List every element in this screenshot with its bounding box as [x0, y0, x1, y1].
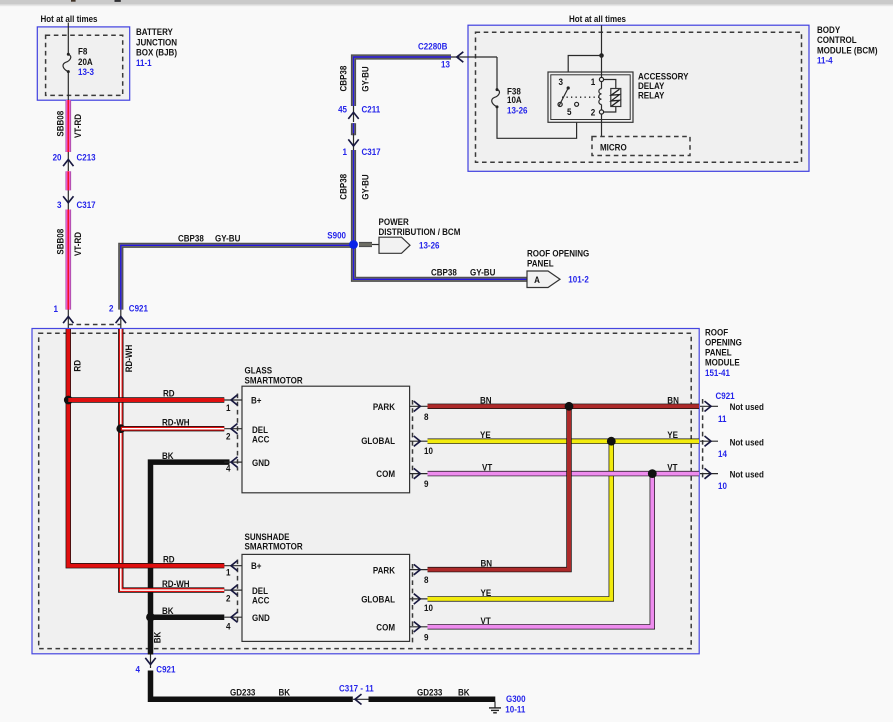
svg-text:MICRO: MICRO	[600, 143, 627, 153]
svg-text:GY-BU: GY-BU	[215, 234, 240, 244]
svg-text:VT: VT	[667, 463, 678, 473]
svg-text:20A: 20A	[78, 57, 93, 67]
fuse F38 value label	[507, 87, 528, 116]
svg-text:ACC: ACC	[252, 435, 270, 445]
wire CBP38 GY-BU from S900 left to module (C921 pin 2)	[121, 245, 354, 309]
wire: down to fuse F38	[496, 57, 498, 89]
wire: S900 down to roof opening panel branch	[354, 245, 528, 279]
svg-text:CBP38: CBP38	[338, 174, 348, 200]
svg-text:MODULE (BCM): MODULE (BCM)	[817, 46, 878, 56]
splice: BK to sunshade GND	[146, 613, 155, 622]
wire BN glass PARK to module edge	[428, 404, 700, 409]
svg-text:9: 9	[424, 479, 429, 489]
svg-text:CBP38: CBP38	[338, 66, 348, 92]
svg-text:45: 45	[338, 105, 347, 115]
relay coil (inductor)	[599, 89, 602, 105]
glass pin 8 (PARK)	[410, 401, 429, 422]
svg-text:10: 10	[718, 481, 727, 491]
svg-text:VT-RD: VT-RD	[73, 114, 83, 138]
svg-text:C317: C317	[362, 147, 381, 157]
svg-text:RD-WH: RD-WH	[124, 345, 134, 373]
svg-text:DELAY: DELAY	[638, 81, 664, 91]
sunshade motor pin name labels	[251, 561, 395, 633]
glass motor pin name labels	[251, 396, 395, 480]
svg-text:BN: BN	[667, 395, 679, 405]
glass pin 2 (DEL ACC)	[224, 424, 242, 442]
svg-text:G300: G300	[506, 694, 526, 704]
svg-text:BK: BK	[162, 606, 174, 616]
connector C2280B (pin 13)	[418, 42, 463, 70]
C921 pin 14 (not used)	[700, 436, 764, 459]
svg-text:4: 4	[226, 464, 231, 474]
svg-text:3: 3	[57, 200, 62, 210]
svg-text:BK: BK	[279, 688, 291, 698]
svg-text:Not used: Not used	[730, 438, 764, 448]
svg-text:1: 1	[343, 147, 348, 157]
svg-text:Not used: Not used	[730, 402, 764, 412]
svg-text:SBB08: SBB08	[56, 229, 66, 255]
wire SBB08 VT-RD upper segment	[66, 100, 72, 152]
svg-text:F8: F8	[78, 47, 87, 57]
svg-text:CONTROL: CONTROL	[817, 35, 857, 45]
svg-text:GD233: GD233	[230, 688, 255, 698]
svg-text:PARK: PARK	[373, 402, 396, 412]
svg-text:ACC: ACC	[252, 596, 270, 606]
svg-text:14: 14	[718, 449, 727, 459]
wire RD-WH from C921 pin 2	[121, 329, 225, 590]
connector C921 pin 2 (module top)	[109, 304, 148, 329]
svg-text:C921: C921	[129, 304, 148, 314]
off-page flag: power distribution / BCM	[379, 217, 461, 253]
roof opening panel module outline	[32, 329, 699, 654]
wire: C2280B exit stub inside BCM	[451, 56, 497, 58]
glass connector dashed line (left)	[237, 394, 239, 471]
svg-text:CBP38: CBP38	[431, 268, 457, 278]
svg-text:GLASS: GLASS	[245, 366, 273, 376]
wire SBB08 VT-RD lower segment	[66, 210, 72, 310]
svg-text:SMARTMOTOR: SMARTMOTOR	[245, 376, 304, 386]
svg-text:1: 1	[226, 403, 231, 413]
svg-text:PARK: PARK	[373, 565, 396, 575]
wire: fuse F38 to relay pin 5	[497, 106, 577, 138]
splice S900	[327, 231, 358, 249]
micro dashed box	[592, 137, 690, 156]
wire BK: glass GND corner down to splice	[151, 462, 230, 617]
svg-text:Hot at all times: Hot at all times	[569, 14, 626, 24]
connector C921 dashed line	[68, 324, 121, 326]
glass pin 10 (GLOBAL)	[410, 436, 433, 456]
wire BK: splice to sunshade GND	[151, 614, 225, 620]
svg-text:RD: RD	[72, 360, 82, 372]
svg-text:GY-BU: GY-BU	[470, 268, 495, 278]
svg-text:8: 8	[424, 575, 429, 585]
wire RD-WH branch to glass pin 2	[121, 426, 225, 431]
svg-text:DEL: DEL	[252, 425, 268, 435]
svg-text:BK: BK	[162, 451, 174, 461]
connector C317 (pin 3)	[57, 190, 96, 210]
svg-text:CBP38: CBP38	[178, 234, 204, 244]
sunshade pin 4 (GND)	[224, 612, 242, 632]
svg-text:C211: C211	[362, 105, 381, 115]
svg-text:BK: BK	[152, 631, 162, 643]
relay pin 1 junction	[599, 77, 603, 81]
svg-text:13: 13	[441, 60, 450, 70]
svg-text:C921: C921	[156, 665, 175, 675]
svg-text:OPENING: OPENING	[705, 338, 742, 348]
sunshade connector dashed line (right)	[412, 564, 414, 644]
svg-text:GLOBAL: GLOBAL	[361, 436, 395, 446]
relay actuation dotted line	[562, 96, 599, 98]
svg-text:PANEL: PANEL	[527, 258, 554, 268]
svg-text:C317 - 11: C317 - 11	[339, 684, 374, 694]
svg-text:SMARTMOTOR: SMARTMOTOR	[245, 542, 304, 552]
off-page flag A: roof opening panel	[527, 249, 589, 288]
svg-text:ROOF OPENING: ROOF OPENING	[527, 249, 589, 259]
wire GD233 BK to C317 arrow	[151, 671, 353, 700]
relay suppression resistor branch	[602, 80, 621, 113]
splice: YE	[607, 437, 616, 446]
svg-text:8: 8	[424, 412, 429, 422]
BCM label text	[817, 25, 878, 66]
svg-text:1: 1	[226, 568, 231, 578]
svg-text:Not used: Not used	[730, 469, 764, 479]
wire: S900 to power distribution flag	[359, 242, 379, 247]
wire BN sunshade PARK up to glass BN	[428, 406, 570, 569]
svg-text:BODY: BODY	[817, 25, 840, 35]
splice: BN	[565, 402, 574, 411]
svg-text:13-26: 13-26	[507, 106, 528, 116]
BCM inner dashed border	[476, 32, 802, 162]
svg-text:GY-BU: GY-BU	[360, 174, 370, 199]
relay pin 2 junction	[599, 110, 603, 114]
module inner dashed border	[39, 333, 692, 648]
fuse F38 symbol	[492, 88, 500, 108]
top browser bar remnant	[0, 0, 893, 5]
svg-text:20: 20	[53, 153, 62, 163]
svg-text:BATTERY: BATTERY	[136, 27, 173, 37]
svg-text:13-3: 13-3	[78, 67, 94, 77]
svg-text:GLOBAL: GLOBAL	[361, 594, 395, 604]
sunshade connector dashed line (left)	[237, 560, 239, 626]
wire: feed into fuse F8	[67, 23, 69, 55]
connector C211 (pin 45)	[338, 105, 380, 123]
wire: fuse F8 to box edge	[67, 72, 69, 100]
wire GD233 BK to ground	[369, 697, 496, 703]
svg-text:YE: YE	[481, 588, 492, 598]
splice: VT	[648, 469, 657, 478]
wire GY-BU between C211 and C317	[351, 123, 356, 135]
connector C317 pin 11 (in-line)	[339, 684, 374, 705]
svg-text:COM: COM	[376, 623, 395, 633]
svg-text:POWER: POWER	[379, 217, 410, 227]
svg-text:1: 1	[591, 77, 596, 87]
svg-text:BK: BK	[458, 688, 470, 698]
junction node at relay feed	[599, 53, 604, 58]
wire VT glass COM to module edge	[428, 471, 700, 476]
wire CBP38 GY-BU from C317 to S900	[351, 150, 356, 245]
svg-text:BN: BN	[480, 395, 492, 405]
svg-text:RD-WH: RD-WH	[162, 579, 190, 589]
svg-text:ROOF: ROOF	[705, 328, 729, 338]
svg-text:C2280B: C2280B	[418, 42, 448, 52]
BJB label text	[136, 27, 177, 68]
wire: hot feed into BCM	[601, 25, 603, 55]
svg-text:DEL: DEL	[252, 586, 268, 596]
svg-text:GD233: GD233	[417, 688, 442, 698]
sunshade pin 9 (COM)	[410, 622, 429, 643]
sunshade smartmotor box	[242, 532, 410, 641]
svg-text:BN: BN	[481, 559, 493, 569]
svg-text:11-4: 11-4	[817, 56, 833, 66]
glass smartmotor box	[242, 366, 410, 493]
svg-text:BOX (BJB): BOX (BJB)	[136, 48, 177, 58]
sunshade pin 1 (B+)	[224, 561, 242, 578]
svg-text:4: 4	[226, 622, 231, 632]
svg-text:13-26: 13-26	[419, 241, 440, 251]
BJB inner dashed border	[46, 35, 123, 95]
svg-text:SUNSHADE: SUNSHADE	[245, 532, 290, 542]
svg-text:11-1: 11-1	[136, 58, 152, 68]
svg-text:9: 9	[424, 632, 429, 642]
wire CBP38 GY-BU from C2280B to C211	[354, 57, 452, 106]
svg-text:GND: GND	[252, 458, 270, 468]
svg-text:C921: C921	[716, 391, 735, 401]
svg-text:10A: 10A	[507, 95, 522, 105]
wire VT sunshade COM up to glass VT	[428, 474, 653, 627]
svg-text:S900: S900	[327, 231, 346, 241]
svg-text:A: A	[534, 275, 540, 285]
svg-text:C213: C213	[77, 153, 96, 163]
svg-text:10-11: 10-11	[505, 704, 525, 714]
svg-text:YE: YE	[667, 430, 678, 440]
svg-text:2: 2	[591, 107, 596, 117]
svg-text:2: 2	[226, 432, 231, 442]
svg-text:RD: RD	[163, 389, 175, 399]
wire RD from C921 pin 1	[68, 329, 224, 566]
sunshade pin 2 (DEL ACC)	[224, 585, 242, 604]
sunshade pin 10 (GLOBAL)	[410, 594, 433, 614]
svg-text:YE: YE	[480, 430, 491, 440]
glass pin 1 (B+)	[224, 395, 242, 413]
wire: relay pin 1 feed	[601, 56, 603, 89]
svg-text:PANEL: PANEL	[705, 348, 732, 358]
svg-text:10: 10	[424, 603, 433, 613]
wire: junction to switch pin 3	[568, 56, 601, 88]
svg-text:VT-RD: VT-RD	[73, 232, 83, 256]
C921 pin 11 (not used)	[700, 401, 764, 424]
svg-text:GND: GND	[252, 613, 270, 623]
svg-text:RD: RD	[163, 555, 175, 565]
svg-text:C317: C317	[77, 200, 96, 210]
wire YE glass GLOBAL to module edge	[428, 439, 700, 444]
svg-text:2: 2	[109, 304, 114, 314]
svg-text:B+: B+	[251, 396, 262, 406]
svg-text:MODULE: MODULE	[705, 358, 740, 368]
svg-text:DISTRIBUTION / BCM: DISTRIBUTION / BCM	[379, 227, 461, 237]
relay name label	[638, 72, 689, 101]
svg-text:11: 11	[718, 414, 727, 424]
svg-text:101-2: 101-2	[568, 275, 589, 285]
module label text	[705, 328, 742, 378]
relay pin labels	[558, 77, 595, 117]
splice: RD branch to glass B+	[64, 396, 73, 405]
connector C921 pin 4 (module bottom exit)	[136, 655, 176, 675]
connector C213 (pin 20)	[53, 152, 96, 171]
wire: coil to pin 2	[601, 105, 603, 113]
module right connector dashed line	[702, 399, 704, 481]
svg-text:GY-BU: GY-BU	[360, 66, 370, 91]
svg-text:2: 2	[226, 594, 231, 604]
battery junction box BJB outline	[37, 27, 129, 100]
wire RD branch to glass pin 1	[68, 397, 224, 402]
glass connector dashed line (right)	[412, 400, 414, 481]
wire BK: splice to module bottom	[148, 617, 154, 654]
svg-text:RD-WH: RD-WH	[162, 418, 190, 428]
svg-text:ACCESSORY: ACCESSORY	[638, 72, 689, 82]
cropped toolbar text fragment	[71, 0, 76, 2]
svg-text:RELAY: RELAY	[638, 91, 664, 101]
relay box outline	[548, 72, 633, 122]
connector C317 (pin 1, BCM chain)	[343, 133, 381, 157]
svg-text:3: 3	[558, 77, 563, 87]
svg-text:COM: COM	[376, 469, 395, 479]
svg-text:B+: B+	[251, 561, 262, 571]
fuse F8 symbol	[63, 53, 71, 73]
svg-text:VT: VT	[481, 616, 492, 626]
C921 pin 10 (not used)	[700, 468, 764, 491]
relay switch arm	[558, 86, 579, 106]
connector C921 pin 1 (module top)	[54, 304, 74, 329]
fuse F8 value label	[78, 47, 94, 78]
svg-text:10: 10	[424, 446, 433, 456]
svg-text:5: 5	[567, 107, 572, 117]
wire YE sunshade GLOBAL up to glass YE	[428, 441, 612, 599]
wire VT-RD between C213 and C317	[66, 171, 72, 190]
svg-text:1: 1	[54, 304, 59, 314]
glass pin 9 (COM)	[410, 468, 429, 489]
svg-text:Hot at all times: Hot at all times	[41, 14, 98, 24]
svg-text:SBB08: SBB08	[56, 111, 66, 137]
splice: RD-WH branch to glass DEL ACC	[116, 424, 125, 433]
svg-text:151-41: 151-41	[705, 368, 730, 378]
svg-text:4: 4	[136, 665, 141, 675]
wire: relay pin 2 to micro	[601, 114, 603, 137]
svg-text:VT: VT	[482, 463, 493, 473]
ground G300	[489, 694, 526, 715]
glass pin 4 (GND)	[224, 457, 242, 474]
sunshade pin 8 (PARK)	[410, 564, 429, 585]
svg-text:JUNCTION: JUNCTION	[136, 37, 177, 47]
body control module BCM outline	[468, 25, 809, 171]
